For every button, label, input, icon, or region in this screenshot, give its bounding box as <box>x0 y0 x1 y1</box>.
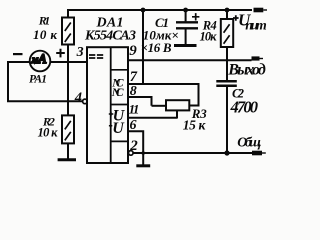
op-amp comparator DA1 body <box>87 47 128 163</box>
ground under R2 <box>58 158 76 161</box>
wire R3 bottom tap <box>176 110 178 118</box>
node top rail junction dot x143 <box>141 8 146 13</box>
resistor R2 <box>62 115 74 143</box>
capacitor C2 <box>216 81 237 153</box>
svg-text:Общ.: Общ. <box>237 136 262 151</box>
label -U pin6 <box>109 125 112 127</box>
comparator symbol == <box>89 55 103 58</box>
terminal Vyhod tab <box>252 56 264 60</box>
node pin4 inversion circle <box>83 99 88 104</box>
wire pin 9 output line to Vyhod terminal <box>128 59 252 61</box>
svg-text:10к: 10к <box>200 30 218 44</box>
node C2 bottom junction dot <box>224 150 229 155</box>
wire R2 bottom to ground <box>67 143 69 158</box>
node bottom rail junction at x143 <box>141 151 145 155</box>
terminal Obsh tab <box>252 151 266 156</box>
svg-text:4700: 4700 <box>230 98 259 117</box>
svg-text:7: 7 <box>130 69 138 85</box>
node R4 top junction dot <box>225 8 230 13</box>
svg-text:R1: R1 <box>38 14 51 28</box>
wire R3 left lead <box>152 105 167 107</box>
wire top supply rail <box>68 9 252 11</box>
label C1 polarity plus <box>192 13 199 20</box>
resistor R1 <box>62 18 74 45</box>
label +Upit plus <box>233 15 239 21</box>
capacitor C1 <box>176 10 198 44</box>
svg-text:А: А <box>37 52 46 66</box>
svg-text:15 к: 15 к <box>183 118 207 133</box>
resistor R3 <box>166 100 189 110</box>
svg-text:6: 6 <box>130 118 137 133</box>
label plus at PA1 <box>56 49 65 58</box>
wire pin 7 feedback top line <box>128 83 199 85</box>
svg-text:10 к: 10 к <box>33 27 57 42</box>
wire pin 2 common rail to Obsh terminal <box>133 152 252 154</box>
wire PA1 plus terminal to pin 3 <box>50 61 87 63</box>
label +U pin11 <box>109 112 114 117</box>
ground under pin 6 <box>136 164 150 167</box>
wire R1 bottom through node 3 down to R2 <box>67 45 69 116</box>
node C1 top junction dot <box>183 8 188 13</box>
label minus at PA1 <box>13 53 23 55</box>
svg-text:2: 2 <box>129 138 138 154</box>
wire top rail drop to R1 <box>67 9 69 18</box>
resistor R4 <box>221 10 233 47</box>
svg-text:×16 В: ×16 В <box>141 40 172 55</box>
wire R4 bottom through output crossing down to C2 <box>226 47 228 80</box>
svg-text:10 к: 10 к <box>38 126 59 140</box>
wire pin 11 <box>128 117 177 119</box>
wire feedback right drop <box>198 83 200 106</box>
svg-text:К554СА3: К554СА3 <box>84 29 136 44</box>
svg-text:3: 3 <box>76 45 84 60</box>
wire pin 8 over to R3 left <box>128 97 152 106</box>
wire from top rail down to feedback line <box>142 10 144 85</box>
node pin2 inversion circle <box>129 151 134 156</box>
svg-text:NC: NC <box>111 87 124 99</box>
svg-text:4: 4 <box>74 90 82 106</box>
wire PA1 minus terminal loop left down and right to pin 4 <box>8 62 83 101</box>
wire R3 right lead <box>189 105 199 107</box>
ground under C1 <box>174 44 197 47</box>
svg-text:Выход: Выход <box>227 61 266 78</box>
terminal +Upit tab <box>254 8 268 13</box>
svg-text:1: 1 <box>133 102 140 117</box>
svg-text:8: 8 <box>130 84 137 99</box>
wire pin 6 to ground <box>128 131 143 165</box>
svg-text:пит: пит <box>245 18 267 33</box>
svg-text:PA1: PA1 <box>29 73 47 85</box>
svg-text:9: 9 <box>129 43 137 59</box>
ammeter PA1 <box>30 51 51 72</box>
svg-text:U: U <box>112 120 125 137</box>
